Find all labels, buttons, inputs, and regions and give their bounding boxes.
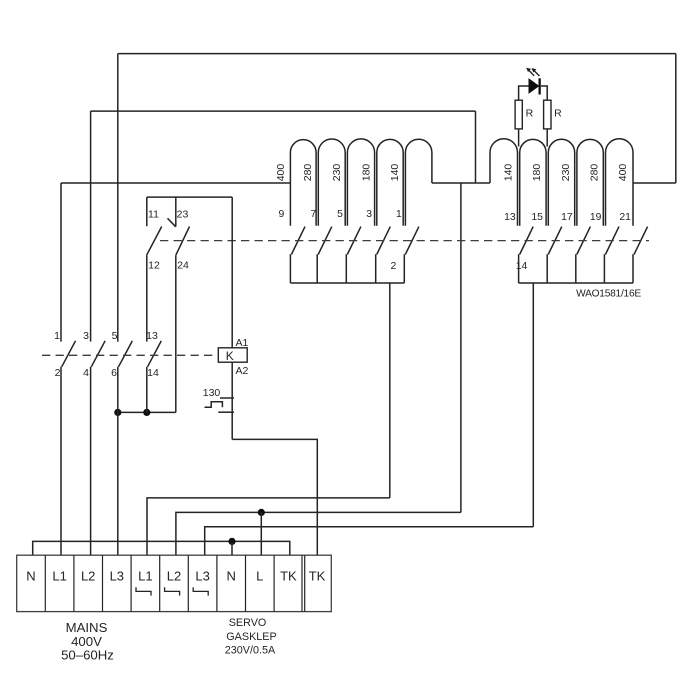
wire node to servo terminal N: [231, 541, 233, 555]
main contact 5-6: [119, 341, 133, 367]
wire contact 2 to terminal L1: [60, 367, 62, 555]
LED D1 indicator: [526, 68, 541, 95]
svg-text:140: 140: [503, 164, 515, 182]
svg-text:N: N: [227, 569, 236, 584]
wire thermal cutout to TK terminal: [232, 439, 317, 555]
svg-text:2: 2: [391, 261, 397, 272]
wire R2 to 180V tap: [546, 129, 548, 147]
svg-text:280: 280: [588, 164, 600, 182]
thermal cutout 130 degrees: [205, 398, 235, 412]
wire contact 6 to terminal L3: [117, 367, 119, 555]
svg-text:400: 400: [617, 164, 629, 182]
svg-text:230V/0.5A: 230V/0.5A: [225, 644, 276, 656]
svg-text:7: 7: [311, 209, 317, 220]
transformer T2 (right autotransformer bank): [490, 139, 648, 283]
wire contact 12 to contact 13: [146, 255, 148, 341]
wire T1 bus drop: [389, 283, 391, 498]
winding arch 2: [520, 139, 546, 225]
wire T2 bus to servo terminal L3: [205, 527, 534, 555]
svg-text:1: 1: [396, 209, 402, 220]
servo coil hook symbol: [165, 587, 180, 595]
svg-text:GASKLEP: GASKLEP: [226, 631, 276, 643]
wire node to terminal L: [260, 512, 262, 555]
svg-text:14: 14: [147, 367, 159, 379]
wire vertical drop to interbank node: [475, 111, 477, 183]
terminal strip X1: [17, 555, 332, 611]
wire L1 feed vertical to contact 1: [60, 183, 62, 342]
switch contact 15: [547, 227, 562, 283]
aux contact 23-24 with actuator arrow: [168, 197, 190, 255]
svg-text:A1: A1: [236, 337, 249, 349]
svg-text:1: 1: [54, 330, 60, 342]
junction node terminal N servo: [228, 538, 235, 545]
wire LED cathode: [541, 86, 547, 100]
svg-text:4: 4: [83, 367, 89, 379]
svg-text:17: 17: [561, 212, 573, 223]
resistor R1: [515, 100, 522, 129]
winding arch 5: [606, 139, 634, 226]
main contact 1-2: [62, 341, 76, 367]
svg-text:L3: L3: [195, 569, 209, 584]
winding arch 4: [577, 139, 603, 225]
wire interbank node to servo terminal L2: [176, 512, 461, 555]
dashed mechanical linkage (contactor K): [42, 354, 218, 356]
svg-text:L1: L1: [52, 569, 66, 584]
svg-text:TK: TK: [309, 569, 326, 584]
main contact 13-14: [148, 341, 162, 367]
switch contact 1: [404, 227, 419, 283]
switch contact 19: [604, 227, 619, 283]
svg-text:130: 130: [203, 387, 221, 399]
svg-text:13: 13: [146, 330, 158, 342]
switch contact 3: [376, 227, 391, 283]
svg-text:140: 140: [389, 164, 401, 182]
svg-text:5: 5: [112, 330, 118, 342]
svg-text:WAO1581/16E: WAO1581/16E: [576, 289, 641, 300]
svg-text:19: 19: [590, 212, 602, 223]
svg-text:12: 12: [148, 260, 160, 272]
switch contact 21: [633, 227, 648, 283]
winding arch 1: [290, 140, 316, 226]
switch contact 17: [576, 227, 591, 283]
servo coil hook symbol: [193, 587, 208, 595]
svg-text:400: 400: [275, 164, 287, 182]
svg-text:280: 280: [302, 164, 314, 182]
winding arch 2: [318, 139, 345, 226]
winding arch 3: [548, 139, 574, 226]
svg-text:3: 3: [83, 330, 89, 342]
svg-text:13: 13: [504, 212, 516, 223]
wire L2 feed horizontal: [91, 110, 476, 112]
aux contact 11-12: [147, 197, 162, 255]
svg-text:6: 6: [111, 367, 117, 379]
svg-text:K: K: [226, 349, 234, 363]
svg-text:N: N: [26, 569, 35, 584]
switch contact 5: [346, 227, 361, 283]
dashed mechanical linkage line (tap selector): [160, 240, 649, 242]
svg-text:21: 21: [619, 212, 631, 223]
bus bar T2 contacts common: [519, 282, 633, 284]
wire T1 bus to servo terminal L1: [147, 498, 390, 555]
servo coil hook symbol: [136, 587, 151, 595]
transformer T1 (left autotransformer bank): [275, 139, 432, 283]
wire LED anode: [519, 86, 529, 100]
wire right edge to transformer T2 400 tap: [633, 182, 676, 184]
switch contact 7: [317, 227, 332, 283]
svg-text:230: 230: [560, 164, 572, 182]
svg-text:24: 24: [177, 260, 189, 272]
wire contact 14 to node: [146, 367, 148, 413]
bus bar T1 contacts common: [290, 282, 404, 284]
resistor R2: [544, 100, 551, 129]
switch contact 13: [519, 227, 534, 283]
wire aux bus to relay A1: [231, 197, 233, 348]
svg-text:180: 180: [361, 164, 373, 182]
wire interbank node down to servo line: [460, 183, 462, 512]
svg-text:SERVO: SERVO: [229, 617, 267, 629]
wire right edge vertical: [675, 54, 677, 183]
svg-text:3: 3: [366, 209, 372, 220]
wire interbank link T1-T2: [432, 182, 490, 184]
switch contact 9: [290, 227, 305, 283]
svg-text:L2: L2: [81, 569, 95, 584]
svg-text:L1: L1: [138, 569, 152, 584]
svg-text:L: L: [256, 569, 263, 584]
svg-text:23: 23: [177, 209, 189, 221]
svg-text:L2: L2: [167, 569, 181, 584]
wire contact 4 to terminal L2: [90, 367, 92, 555]
svg-text:TK: TK: [280, 569, 297, 584]
wire L3 feed vertical to contact 5: [117, 54, 119, 342]
svg-text:230: 230: [331, 164, 343, 182]
wire L3 feed top horizontal: [118, 53, 676, 55]
svg-text:9: 9: [279, 209, 285, 220]
svg-text:5: 5: [337, 209, 343, 220]
wire neutral N to TK1: [33, 541, 290, 555]
winding arch 3: [347, 139, 374, 226]
wire node row 6-14-24: [118, 411, 176, 413]
svg-text:L3: L3: [110, 569, 124, 584]
wire contact 24 down to node: [175, 255, 177, 412]
svg-text:11: 11: [148, 209, 159, 221]
svg-text:R: R: [526, 108, 534, 120]
wire T2 bus drop: [532, 283, 534, 527]
winding arch 5: [405, 139, 432, 226]
winding arch 4: [377, 139, 403, 225]
junction node at contact 14: [143, 409, 150, 416]
svg-text:14: 14: [516, 261, 528, 272]
svg-text:15: 15: [531, 212, 543, 223]
wire relay A2 to thermal cutout: [231, 362, 233, 439]
wire R1 to 140V tap: [518, 129, 520, 147]
svg-text:R: R: [554, 108, 562, 120]
wire L2 feed vertical to contact 3: [90, 111, 92, 342]
relay coil K: [218, 348, 247, 362]
junction node terminal L: [258, 509, 265, 516]
junction node at contact 6: [114, 409, 121, 416]
main contact 3-4: [91, 341, 105, 367]
svg-text:50–60Hz: 50–60Hz: [61, 647, 114, 662]
svg-text:180: 180: [531, 164, 543, 182]
svg-text:2: 2: [55, 367, 61, 379]
wire aux contact bus: [147, 196, 232, 198]
winding arch 1: [490, 139, 518, 226]
wire L1 feed horizontal to transformer T1 400 tap: [61, 182, 290, 184]
svg-text:A2: A2: [236, 365, 249, 377]
